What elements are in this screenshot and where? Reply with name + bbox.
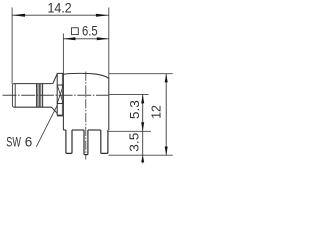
cone top edge (53, 74, 57, 84)
extension line left (6.5) (62, 34, 64, 74)
vertical centerline (pin axis) (85, 72, 87, 160)
extension line axis to 5.3 dim (109, 93, 148, 95)
hex strip top edge (57, 72, 64, 74)
svg-text:5.3: 5.3 (127, 100, 142, 119)
plug cap inner vertical (14, 84, 16, 108)
leg right outline (101, 130, 108, 153)
leader line SW 6 (36, 105, 57, 147)
hex strip right edge inner line (61, 74, 63, 115)
cone bottom edge (52, 107, 58, 113)
extension line left (14.2) (11, 8, 13, 85)
hex cross diagonal 1 (57, 85, 63, 104)
arrowhead 3.5 up from below (141, 155, 144, 162)
hex strip left edge (56, 73, 58, 115)
knurl band boundary right (42, 84, 44, 108)
dimension line 5.3/3.5 (142, 94, 144, 163)
arrowhead 12 up (165, 74, 168, 83)
center pin outline (84, 130, 88, 155)
dim text square 6.5 (72, 28, 79, 35)
body top curved edge (63, 73, 108, 78)
arrowhead 12 down (165, 147, 168, 156)
leg left outline (66, 130, 72, 153)
dimension line 12 (165, 74, 167, 156)
svg-text:14.2: 14.2 (48, 0, 72, 16)
hex strip divider upper (57, 84, 63, 86)
dimension line 6.5 (63, 38, 108, 40)
dimension line 14.2 (12, 14, 109, 16)
svg-text:6: 6 (25, 134, 33, 149)
arrowhead 14.2 left (12, 14, 25, 17)
arrowhead 5.3 down (141, 122, 144, 131)
arrowhead 6.5 right (97, 37, 109, 40)
svg-text:3.5: 3.5 (126, 133, 141, 152)
plug top edge (14, 83, 53, 85)
plug bottom edge (14, 106, 52, 108)
extension line pcb surface (5.3/3.5) (109, 130, 152, 132)
hex strip bottom thick bar (57, 115, 64, 117)
arrowhead 5.3 up (141, 94, 144, 103)
svg-text:12: 12 (148, 105, 163, 119)
body bottom segment 2 (72, 129, 84, 131)
connector body outline (12, 72, 108, 160)
plug cap left rounded edge (12, 84, 14, 108)
hex strip divider lower (57, 103, 63, 105)
knurl line 1 (37, 84, 39, 108)
arrowhead 14.2 right (96, 14, 109, 17)
hex strip right edge (62, 73, 64, 130)
svg-text:6.5: 6.5 (82, 23, 98, 38)
extension line pin tips (3.5/12) (109, 154, 173, 156)
knurl band boundary left (36, 84, 38, 108)
extension line right (14.2 / 6.5) (108, 8, 110, 79)
knurl line 3 (40, 84, 42, 108)
body bottom segment 3 (88, 129, 101, 131)
horizontal centerline (coax axis) (3, 94, 110, 96)
arrowhead 6.5 left (63, 37, 75, 40)
body right edge (108, 78, 110, 130)
svg-text:SW: SW (6, 134, 21, 149)
hex cross diagonal 2 (57, 85, 63, 104)
body bottom segment 1 (63, 129, 66, 131)
knurl line 2 (38, 84, 40, 108)
extension line top of body (12) (109, 73, 173, 75)
